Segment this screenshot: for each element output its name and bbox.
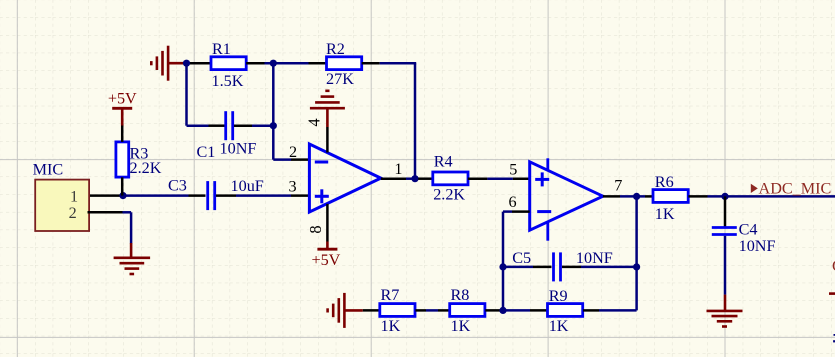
- svg-text:4: 4: [305, 118, 324, 126]
- svg-text:MIC: MIC: [33, 161, 64, 179]
- svg-text:1.5K: 1.5K: [212, 72, 244, 90]
- svg-text:5: 5: [509, 161, 517, 179]
- svg-text:2.2K: 2.2K: [433, 185, 465, 203]
- svg-text:1K: 1K: [381, 317, 401, 335]
- svg-text:1K: 1K: [655, 205, 675, 223]
- svg-text:+5V: +5V: [311, 251, 340, 269]
- svg-text:R4: R4: [434, 152, 453, 170]
- svg-text:7: 7: [614, 177, 622, 195]
- svg-text:2.2K: 2.2K: [130, 159, 162, 177]
- svg-text:R7: R7: [381, 286, 400, 304]
- svg-text:27K: 27K: [326, 70, 354, 88]
- svg-text:R9: R9: [549, 287, 568, 305]
- svg-text:1: 1: [70, 187, 78, 205]
- svg-text:3: 3: [289, 178, 297, 196]
- svg-text:10uF: 10uF: [231, 177, 264, 195]
- svg-text:C3: C3: [168, 177, 187, 195]
- svg-text:+5V: +5V: [108, 90, 137, 108]
- svg-text:C4: C4: [739, 221, 758, 239]
- svg-text:R1: R1: [212, 40, 231, 58]
- svg-text:2: 2: [289, 143, 297, 161]
- svg-text:R6: R6: [655, 173, 674, 191]
- svg-text:6: 6: [509, 193, 517, 211]
- svg-text:1: 1: [394, 160, 402, 178]
- svg-text:R8: R8: [451, 286, 470, 304]
- svg-text:10NF: 10NF: [739, 237, 776, 255]
- svg-text:10NF: 10NF: [576, 249, 613, 267]
- svg-text:R2: R2: [326, 40, 345, 58]
- svg-text:ADC_MIC: ADC_MIC: [759, 179, 832, 197]
- svg-text:C1: C1: [197, 143, 216, 161]
- svg-text:8: 8: [306, 225, 325, 233]
- svg-text:1K: 1K: [451, 317, 471, 335]
- svg-text:1K: 1K: [549, 317, 569, 335]
- svg-text:10NF: 10NF: [220, 139, 257, 157]
- svg-text:2: 2: [69, 204, 77, 222]
- svg-text:C5: C5: [512, 249, 531, 267]
